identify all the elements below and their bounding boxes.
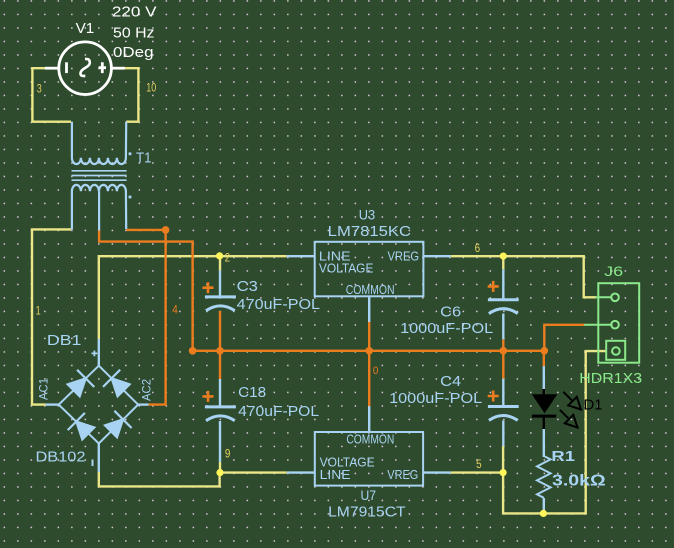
junction dot orange bus left <box>189 347 197 355</box>
junction dot orange bus C6 C4 <box>500 347 508 355</box>
C3 top lead blue <box>219 270 221 296</box>
node 2 junction dot <box>216 252 223 259</box>
svg-text:470uF-POL: 470uF-POL <box>238 404 319 420</box>
connector J6 <box>584 283 639 363</box>
capacitor C6 <box>488 300 519 314</box>
svg-text:9: 9 <box>225 446 231 460</box>
svg-text:R1: R1 <box>551 448 575 465</box>
junction dot orange bus U3 U7 COMMON <box>365 347 373 355</box>
U7 LINE pin stub <box>287 471 315 473</box>
C18 bottom lead blue <box>219 421 221 462</box>
svg-text:1000uF-POL: 1000uF-POL <box>389 391 482 407</box>
resistor R1 <box>537 456 551 498</box>
wire net0 orange U3 COMMON drop <box>368 322 370 351</box>
svg-text:LINE: LINE <box>320 467 351 482</box>
wire net4 orange T1 secondary right to bridge AC2 <box>126 230 165 405</box>
svg-text:D1: D1 <box>584 398 603 414</box>
D1 arrow 2 <box>560 410 578 428</box>
regulator U7 box <box>315 432 423 486</box>
C6 plus mark <box>488 281 499 292</box>
wire net5 yellow jog to J6 pin3 <box>503 351 606 513</box>
svg-text:DB1: DB1 <box>47 333 82 349</box>
capacitor C18 <box>205 407 236 421</box>
C18 top lead blue <box>219 379 221 407</box>
V1 pin stub right white <box>112 67 125 70</box>
svg-text:VOLTAGE: VOLTAGE <box>319 260 374 275</box>
svg-text:VREG: VREG <box>387 467 418 482</box>
svg-text:1000uF-POL: 1000uF-POL <box>400 321 493 337</box>
R1 bottom lead blue <box>543 498 545 513</box>
diode upper-left <box>68 370 95 397</box>
U7 VREG pin stub <box>423 471 451 473</box>
wire net9 yellow C18 bottom <box>219 462 221 473</box>
svg-text:DB102: DB102 <box>36 449 86 465</box>
junction dot orange T1 AC2 corner <box>162 226 170 234</box>
svg-text:C6: C6 <box>440 305 461 321</box>
diode lower-right <box>105 411 132 438</box>
wire net0 orange center tap to bus <box>99 230 193 351</box>
U7 COMMON pin stub <box>368 406 370 432</box>
wire net1 yellow T1 secondary to bridge AC1 <box>32 229 71 404</box>
wire net10 yellow right of V1 <box>125 68 138 122</box>
svg-text:3.0kΩ: 3.0kΩ <box>552 473 606 490</box>
svg-text:C3: C3 <box>237 279 258 295</box>
svg-text:LM7915CT: LM7915CT <box>328 505 406 521</box>
bridge minus mark <box>92 460 94 467</box>
svg-text:U7: U7 <box>361 487 377 503</box>
svg-text:220 V: 220 V <box>112 5 157 21</box>
capacitor C3 <box>205 297 236 311</box>
C6 bottom lead blue <box>502 314 504 340</box>
svg-text:T1: T1 <box>136 151 152 167</box>
capacitor C4 <box>488 407 519 421</box>
svg-text:3: 3 <box>37 81 42 95</box>
wire net6 yellow U3 VREG to J6 pin1 <box>451 256 597 297</box>
diode lower-left <box>68 413 95 440</box>
svg-text:J6: J6 <box>604 263 623 279</box>
wire net9 yellow bridge minus jog to U7 LINE <box>99 472 220 487</box>
D1 bottom lead blue <box>543 429 545 457</box>
svg-text:LM7815KC: LM7815KC <box>328 224 411 240</box>
transformer T1 <box>72 122 127 231</box>
C6 top lead blue <box>502 269 504 299</box>
wire net5 yellow C4 lower lead <box>502 446 504 473</box>
junction dot orange bus C3 C18 <box>216 347 224 355</box>
wire net0 orange bus to D1 <box>543 351 545 366</box>
wire net6 yellow stub to C6 <box>502 256 504 269</box>
svg-text:AC1: AC1 <box>37 378 51 400</box>
C4 bottom lead blue <box>502 421 504 447</box>
ac source V1 <box>59 42 112 95</box>
svg-text:5: 5 <box>476 457 482 471</box>
U3 VREG pin stub <box>423 255 450 257</box>
svg-text:C18: C18 <box>238 385 266 401</box>
svg-text:COMMON: COMMON <box>346 282 395 297</box>
svg-text:U3: U3 <box>359 207 376 223</box>
bridge pin stub left blue <box>46 403 59 405</box>
U3 LINE pin stub <box>287 255 315 257</box>
wire net9 yellow to U7 LINE pin <box>220 471 287 473</box>
svg-text:VREG: VREG <box>388 248 420 263</box>
T1 phase dot secondary <box>129 196 132 199</box>
wire net5 yellow U7 VREG to node <box>451 471 503 473</box>
C3 plus mark <box>203 282 214 293</box>
D1 top lead blue <box>543 366 545 389</box>
svg-text:0: 0 <box>373 365 379 377</box>
wire net2 yellow bridge plus to U3 LINE <box>99 256 287 339</box>
wire net0 orange bus to J6 pin2 <box>544 325 584 351</box>
node 5 junction dot <box>500 469 507 476</box>
junction dot bottom right R1 <box>540 510 547 517</box>
wire net3 yellow left of V1 <box>32 68 71 122</box>
svg-text:C4: C4 <box>440 374 461 390</box>
C3 top lead yellow <box>219 256 221 270</box>
svg-text:1: 1 <box>36 304 41 318</box>
regulator U3 box <box>315 242 424 296</box>
svg-text:10: 10 <box>146 80 156 94</box>
svg-text:2: 2 <box>225 250 231 264</box>
svg-text:V1: V1 <box>76 21 95 37</box>
svg-text:COMMON: COMMON <box>346 431 394 446</box>
svg-text:HDR1X3: HDR1X3 <box>579 371 642 387</box>
svg-text:4: 4 <box>172 303 178 317</box>
C4 top lead blue <box>502 379 504 407</box>
C18 plus mark <box>203 391 214 402</box>
diode upper-right <box>103 370 130 397</box>
wire net0 orange C18 top <box>219 351 221 379</box>
V1 pin stub left white <box>45 67 59 70</box>
U3 COMMON pin stub <box>368 296 370 322</box>
wire net0 orange U7 COMMON riser <box>368 351 370 406</box>
svg-text:50 Hz: 50 Hz <box>113 25 155 41</box>
node 9 junction dot <box>216 469 223 476</box>
svg-text:AC2: AC2 <box>140 379 154 401</box>
bridge pin stub right blue <box>138 403 149 405</box>
svg-text:470uF-POL: 470uF-POL <box>237 297 320 313</box>
svg-text:0Deg: 0Deg <box>113 45 154 61</box>
wire net0 orange C4 top <box>502 351 504 379</box>
T1 phase dot primary <box>129 152 132 155</box>
junction dot orange bus right end <box>541 347 549 355</box>
bridge plus mark <box>92 351 98 357</box>
bridge rectifier DB1 diamond <box>59 366 138 444</box>
LED D1 <box>532 389 557 429</box>
bridge pin stub bottom blue <box>98 444 100 472</box>
C4 plus mark <box>488 391 499 402</box>
node 6 junction dot <box>500 253 507 260</box>
wire net0 orange C6 bottom <box>502 339 504 351</box>
svg-text:6: 6 <box>475 241 481 255</box>
D1 arrow 1 <box>563 392 581 410</box>
wire net0 orange ground bus <box>193 350 545 352</box>
bridge pin stub top blue <box>98 339 100 366</box>
wire net0 orange C3 bottom <box>219 311 221 351</box>
